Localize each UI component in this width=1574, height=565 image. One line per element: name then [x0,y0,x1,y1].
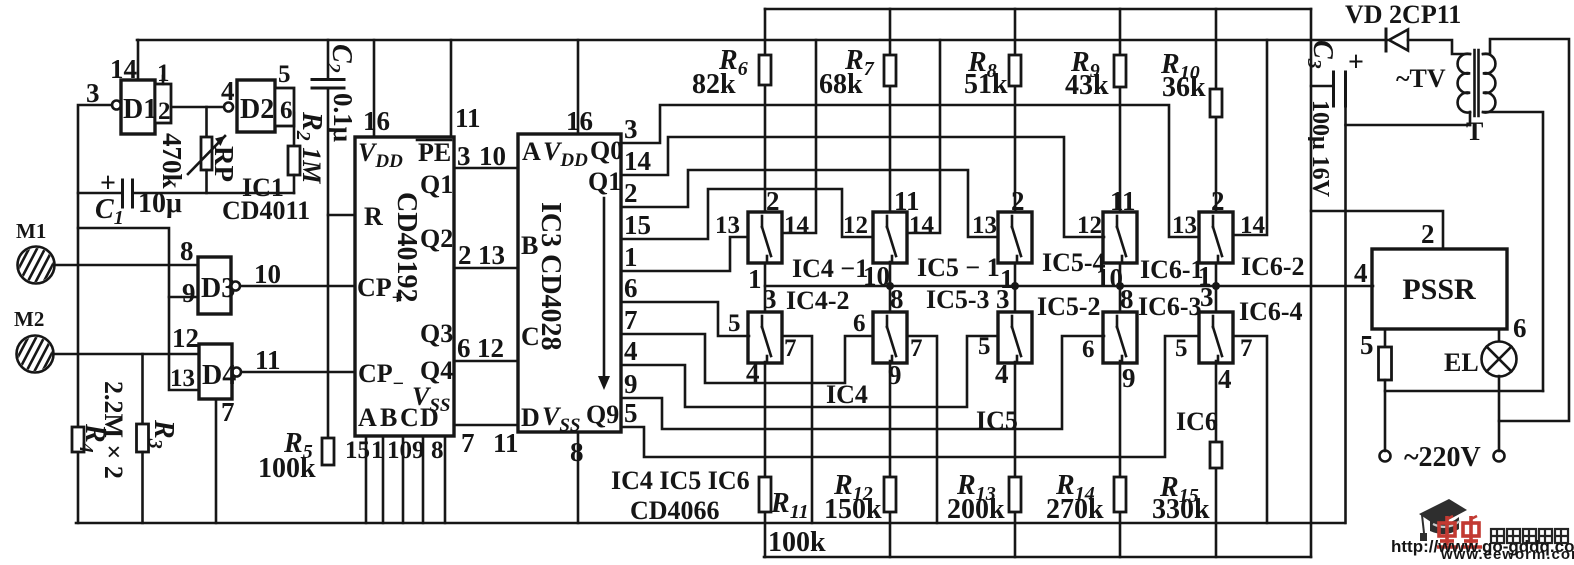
svg-text:100μ 16V: 100μ 16V [1307,100,1333,198]
svg-text:4: 4 [1218,364,1232,394]
svg-text:IC6-4: IC6-4 [1239,297,1303,326]
pin14 VDD riser of IC4 [782,40,816,233]
svg-text:~TV: ~TV [1396,64,1446,93]
svg-text:270k: 270k [1046,494,1104,525]
svg-text:D1: D1 [123,94,157,125]
svg-text:3: 3 [86,78,100,108]
pin14 VDD riser of IC6 [1233,40,1267,235]
svg-text:7: 7 [624,305,638,335]
svg-text:9: 9 [1122,363,1136,393]
gate D1 [112,80,157,134]
svg-text:68k: 68k [819,69,863,100]
analog switch IC5-2 [998,312,1032,363]
svg-text:6: 6 [853,310,866,337]
svg-text:5: 5 [624,398,638,428]
svg-text:7: 7 [221,397,235,427]
svg-text:5: 5 [1360,330,1374,360]
svg-text:www.eeworm.com: www.eeworm.com [1440,546,1574,560]
svg-text:100k: 100k [258,453,316,484]
svg-text:3: 3 [457,141,471,171]
svg-text:RP: RP [209,146,239,182]
svg-text:7: 7 [1240,335,1253,362]
wire: C3 node to transformer secondary bottom [1346,124,1471,127]
resistor R5 100k [322,438,334,465]
resistor R13 200k [1009,477,1021,512]
wire: ground VSS rail y=523 [76,522,1345,525]
wire: right VDD vertical x=1311 [1310,9,1313,557]
svg-text:14: 14 [624,146,651,176]
svg-text:A: A [358,403,377,432]
svg-text:CD4011: CD4011 [222,196,310,225]
svg-text:IC5: IC5 [976,406,1018,435]
wire: Q4 to D (pins 7-11) [454,424,518,427]
wire: D3 output to CP+ [240,285,355,288]
resistor R8 51k [1009,55,1021,86]
svg-text:IC3 CD4028: IC3 CD4028 [535,202,566,351]
svg-text:13: 13 [972,212,997,239]
resistor R2 1M [288,146,300,175]
capacitor C2 0.1u [312,40,344,438]
svg-text:2: 2 [1421,219,1435,249]
svg-text:12: 12 [1077,212,1102,239]
svg-text:Q0: Q0 [590,136,623,165]
svg-text:10: 10 [479,141,506,171]
wire: column 2 vertical (R7/IC5-1/IC5-3/R12) [889,9,892,55]
svg-text:D3: D3 [201,273,235,304]
wire: top VDD rail [765,8,1311,11]
svg-text:B: B [380,403,397,432]
svg-text:8: 8 [890,284,904,314]
svg-text:100k: 100k [768,527,826,558]
analog switch IC6-3 [1103,312,1137,363]
transformer T [1458,50,1496,125]
svg-text:IC6-3: IC6-3 [1138,292,1202,321]
svg-text:2: 2 [766,186,780,216]
wire: primary bottom to fuse node [1483,112,1543,391]
pin16 VDD stub IC2 [373,40,376,137]
svg-text:470k: 470k [157,133,187,189]
wire: D1 inputs to D2 output [171,106,224,109]
svg-text:1: 1 [157,60,170,87]
svg-text:1: 1 [624,242,638,272]
svg-text:16: 16 [363,106,390,136]
resistor R3 [137,354,149,523]
svg-text:7: 7 [784,335,797,362]
terminal circle right 220V [1494,451,1505,462]
svg-text:8: 8 [1120,284,1134,314]
svg-text:Q3: Q3 [420,319,453,348]
resistor R7 68k [884,55,896,86]
svg-text:1: 1 [371,437,384,464]
svg-text:IC4 IC5 IC6: IC4 IC5 IC6 [611,466,750,495]
svg-text:EL: EL [1444,348,1479,377]
terminal circle left 220V [1380,451,1391,462]
svg-text:4: 4 [1354,258,1368,288]
wire: Q4 pin1 route to IC4-1 ctrl 13 [621,237,748,271]
svg-text:Q4: Q4 [420,356,453,385]
wire: main VDD rail y=40 [137,39,1387,42]
wire: Q1 pin14 route to IC6-1 ctrl 12 [621,137,1104,237]
gate D2 [224,80,275,132]
wire: column 3 vertical (R8/IC5-4/IC5-2/R13) [1014,9,1017,55]
resistor R4 [72,427,84,452]
svg-text:11: 11 [255,345,281,375]
capacitor C1 [78,168,294,207]
svg-text:12: 12 [477,333,504,363]
svg-text:4: 4 [995,359,1009,389]
svg-text:5: 5 [278,61,291,88]
svg-text:5: 5 [978,333,991,360]
wire: EL bottom to 220V terminal right [1498,376,1501,451]
svg-text:2: 2 [1211,186,1225,216]
svg-text:11: 11 [493,428,519,458]
svg-text:1: 1 [748,264,762,294]
D2 input pins 5-6 box [275,61,294,126]
wire: Q6 pin7 route to IC5-3 ctrl 6 [621,334,871,383]
svg-text:IC4: IC4 [826,380,868,409]
svg-text:2.2M × 2: 2.2M × 2 [99,381,128,479]
pin7 VSS dropper of IC4 [782,336,812,523]
svg-text:Q1: Q1 [420,170,453,199]
wire: Q5 pin6 route to IC4-2 ctrl 5 [621,302,749,336]
wire: PSSR pin5 down to fuse [1384,329,1387,347]
svg-text:Q2: Q2 [420,224,453,253]
svg-text:2: 2 [1011,186,1025,216]
svg-text:5: 5 [1175,335,1188,362]
wire: Q2 pin2 route to IC5-4 ctrl 13 [621,170,998,237]
wire: D2 inputs to R2 [293,113,296,146]
svg-text:200k: 200k [947,494,1005,525]
wire: primary top to right border down to EL bottom node [1483,39,1569,421]
pin16 VDD stub IC3 [577,40,580,134]
svg-text:3: 3 [996,284,1010,314]
svg-text:10: 10 [387,437,412,464]
lamp EL [1482,342,1517,377]
wire: Q3 pin15 route to IC5-1 ctrl 12 [621,189,871,239]
svg-text:IC4-2: IC4-2 [786,286,850,315]
svg-text:9: 9 [624,369,638,399]
counter IC2 CD40192 [355,137,454,436]
svg-text:11: 11 [455,103,481,133]
svg-text:9: 9 [888,360,902,390]
svg-text:6: 6 [624,273,638,303]
wire: column 4 vertical (R9/IC6-1/IC6-3/R14) [1119,9,1122,55]
svg-text:+: + [1348,47,1364,78]
svg-text:16: 16 [566,106,593,136]
svg-text:VD 2CP11: VD 2CP11 [1345,0,1461,29]
svg-text:14: 14 [909,212,935,239]
analog switch IC4-2 [748,312,782,363]
wire: M1 to D3 pin8 [54,264,198,267]
gate D4 [199,344,241,399]
svg-text:Q1: Q1 [588,167,621,196]
wire: Q7 pin4 route to IC5-2 ctrl 5 [621,336,998,407]
svg-text:8: 8 [180,236,194,266]
svg-text:3: 3 [1200,282,1214,312]
svg-text:7: 7 [910,335,923,362]
svg-text:2: 2 [158,98,171,125]
svg-text:R: R [364,202,383,231]
wire: diode to secondary top [1408,40,1470,54]
gate D3 [198,257,240,314]
svg-text:IC5-2: IC5-2 [1037,292,1101,321]
touch plate M1 [0,243,80,285]
wire: Q2 to B (pins 2-13) [454,267,518,270]
svg-text:IC5 − 1: IC5 − 1 [917,253,1000,282]
svg-text:14: 14 [784,212,810,239]
wire: D1 output pin3 to left vertical [78,105,112,523]
svg-text:PE: PE [418,138,451,167]
svg-text:5: 5 [728,310,741,337]
wire: analog output bus to PSSR pin4 [765,285,1373,288]
wire: C3 plus to ground rail (x=1344) [1344,106,1347,523]
svg-text:15: 15 [624,210,651,240]
svg-text:51k: 51k [964,69,1008,100]
analog switch IC6-1 [1103,212,1137,263]
junction dots on bus [886,282,894,290]
svg-text:6: 6 [1082,336,1095,363]
svg-text:CD4066: CD4066 [630,496,720,525]
svg-text:82k: 82k [692,69,736,100]
svg-text:M1: M1 [16,219,46,243]
svg-text:8: 8 [431,437,444,464]
svg-text:Q9: Q9 [586,400,619,429]
wire: D4 output to CP- [241,371,355,374]
touch plate M2 [0,332,79,374]
analog switch IC5-1 [873,212,907,263]
svg-text:330k: 330k [1152,494,1210,525]
svg-text:15: 15 [345,437,370,464]
svg-text:10μ: 10μ [138,188,182,219]
resistor R11 100k [759,477,771,512]
svg-text:2: 2 [624,178,638,208]
svg-text:IC6: IC6 [1176,407,1218,436]
capacitor C3 100u 16V [1311,47,1364,106]
pin8 VSS stub IC3 [577,432,580,523]
wire: R2 bottom to feedback line [293,175,296,193]
wire: Q0 pin3 route to IC6-2 ctrl 13 [621,105,1198,237]
pin14 VDD riser of IC5 [907,40,940,233]
svg-text:36k: 36k [1162,72,1206,103]
svg-text:IC6-2: IC6-2 [1241,252,1305,281]
pin7 VSS dropper of IC6 [1233,336,1267,523]
svg-text:13: 13 [478,240,505,270]
svg-text:0.1μ: 0.1μ [328,93,358,142]
svg-text:8: 8 [570,437,584,467]
svg-text:IC6-1: IC6-1 [1140,255,1204,284]
pin7 VSS stub of D4 [215,399,218,523]
wire: Q3 to C (pins 6-12) [454,360,518,363]
svg-text:D4: D4 [202,360,236,391]
analog switch IC5-3 [873,312,907,363]
solid state relay PSSR [1372,249,1507,329]
D1 input pins 1-2 box [155,60,171,125]
svg-text:10: 10 [254,259,281,289]
wire: Q9 pin5 route to IC6-4 ctrl 5 [621,336,1198,457]
svg-text:9: 9 [182,278,196,308]
svg-text:4: 4 [746,358,760,388]
watermark: chongchong red characters [1437,516,1482,547]
svg-text:6: 6 [457,333,471,363]
svg-text:IC5-3: IC5-3 [926,285,990,314]
wire: M2 to D4 pin12 [53,353,199,356]
svg-text:PSSR: PSSR [1402,273,1476,306]
wire: fuse bottom to 220V terminal [1384,380,1387,451]
watermark: graduation cap logo [1419,499,1467,541]
wire: branch to D3 pin9 [169,296,198,299]
svg-text:3: 3 [624,114,638,144]
wire: 220V live line to fuse bottom [1385,390,1543,393]
svg-text:9: 9 [412,437,425,464]
svg-text:M2: M2 [14,307,44,331]
svg-text:13: 13 [715,212,740,239]
wire: column 5 vertical (R10/IC6-2/IC6-4/R15) [1215,9,1218,89]
IC2 bottom pins 15,1,10,9,8 stubs to ground [365,436,368,523]
resistor R14 270k [1114,477,1126,512]
wire: PSSR pin2 to VDD vertical [1311,211,1443,249]
svg-text:14: 14 [110,54,137,84]
analog switch IC5-4 [998,212,1032,263]
svg-text:7: 7 [461,428,475,458]
wire: osc line to D3 pin9 and D4 pin13 [78,228,199,390]
svg-text:4: 4 [624,336,638,366]
svg-text:43k: 43k [1065,70,1109,101]
wire: Q8 pin9 route to IC6-3 ctrl 6 [621,336,1104,429]
svg-text:A: A [522,137,541,166]
analog switch IC4-1 [748,212,782,263]
analog switch IC6-4 [1199,312,1233,363]
svg-text:R2 1M: R2 1M [292,111,327,184]
svg-text:12: 12 [843,212,868,239]
wire: PSSR pin6 to lamp EL [1498,329,1501,341]
svg-text:D: D [521,403,540,432]
svg-text:CD40192: CD40192 [391,192,422,302]
wire: R11-R15 bottom VDD rail y=557 [764,556,1311,559]
svg-text:D2: D2 [240,94,274,125]
diode VD 2CP11 [1386,29,1408,51]
svg-text:6: 6 [280,97,293,124]
svg-text:11: 11 [1110,186,1136,216]
svg-text:12: 12 [172,323,199,353]
resistor R12 150k [884,477,896,512]
svg-text:~220V: ~220V [1404,442,1481,473]
svg-text:T: T [1466,117,1483,146]
svg-text:3: 3 [763,284,777,314]
wire: column 1 vertical (R6/IC4-1/IC4-2/R11) [764,9,767,55]
svg-text:4: 4 [221,76,235,106]
resistor R6 82k [759,55,771,85]
pin11 PE stub IC2 [450,40,453,137]
svg-text:2: 2 [458,240,472,270]
svg-text:IC4 −1: IC4 −1 [792,254,868,283]
resistor R10 36k [1210,89,1222,117]
resistor R15 330k [1210,442,1222,468]
watermark: dianzi xiazai zhan characters [1491,529,1568,543]
svg-text:13: 13 [170,365,195,392]
decoder IC3 CD4028 [518,134,623,436]
svg-text:150k: 150k [824,494,882,525]
resistor R9 43k [1114,55,1126,87]
fuse on pin5 line [1379,347,1392,380]
potentiometer RP [188,107,225,193]
wire: Q1 to A (pins 3-10) [454,167,518,170]
pin7 VSS dropper of IC5 [907,336,937,523]
analog switch IC6-2 [1199,212,1233,263]
svg-text:13: 13 [1172,212,1197,239]
wire: reset node to R input [328,214,355,217]
pin 14 VDD stub of D1 [137,40,140,80]
svg-text:6: 6 [1513,313,1527,343]
